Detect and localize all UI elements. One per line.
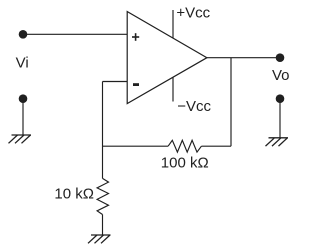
svg-text:Vo: Vo	[272, 67, 290, 84]
svg-text:Vi: Vi	[16, 54, 29, 71]
svg-text:+Vcc: +Vcc	[176, 4, 210, 21]
svg-text:−Vcc: −Vcc	[177, 98, 211, 115]
svg-text:10 kΩ: 10 kΩ	[54, 186, 94, 203]
svg-text:100 kΩ: 100 kΩ	[161, 155, 209, 172]
